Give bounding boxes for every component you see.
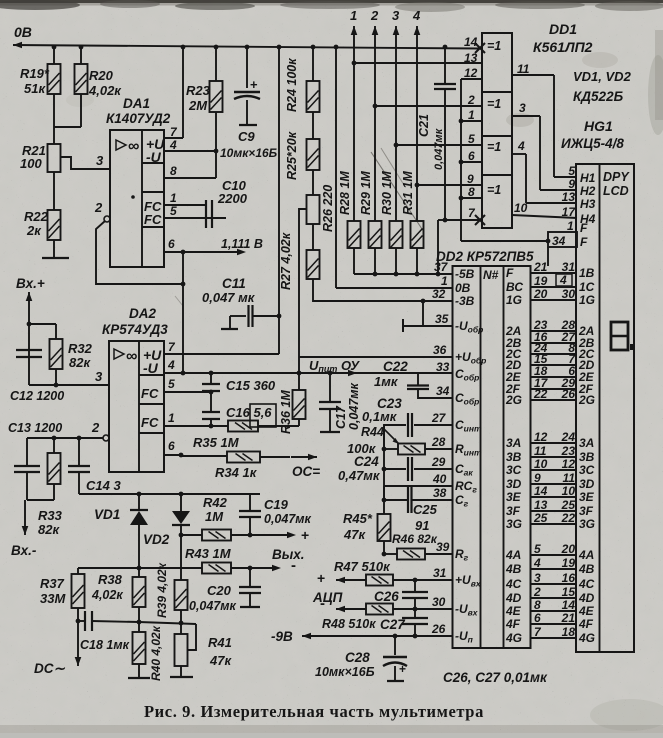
svg-text:+: + — [399, 662, 406, 676]
resistor R38 — [138, 568, 140, 577]
resistor R41 — [180, 623, 182, 634]
svg-text:С19: С19 — [264, 497, 289, 512]
wire R19-R20 join — [53, 94, 55, 127]
pin 5 DD1 — [396, 144, 482, 146]
svg-text:DD2 КР572ПВ5: DD2 КР572ПВ5 — [436, 249, 534, 264]
svg-text:2к: 2к — [26, 223, 42, 238]
svg-text:-U: -U — [146, 149, 162, 165]
capacitor C13 — [14, 465, 40, 467]
svg-text:R29 1М: R29 1М — [359, 171, 373, 215]
svg-text:31: 31 — [562, 260, 576, 274]
svg-text:11: 11 — [534, 444, 547, 458]
svg-text:1: 1 — [350, 8, 357, 23]
svg-text:К561ЛП2: К561ЛП2 — [533, 39, 593, 55]
wire segment F-1В — [531, 272, 577, 274]
svg-text:0,047мк: 0,047мк — [189, 599, 237, 613]
resistor R21 — [48, 144, 61, 172]
wire segment 3D-3D — [531, 483, 577, 485]
wire DD1 aux rail — [460, 79, 462, 241]
wire segment 3В-3В — [531, 456, 577, 458]
svg-text:С24: С24 — [354, 454, 379, 469]
svg-text:26: 26 — [561, 387, 576, 401]
svg-text:11: 11 — [517, 62, 530, 76]
svg-text:14: 14 — [562, 598, 576, 612]
svg-text:10мк×16Б: 10мк×16Б — [315, 665, 375, 679]
pin 5 DA2 — [164, 391, 211, 393]
wire segment 2F-2F — [531, 388, 577, 390]
svg-text:18: 18 — [562, 625, 576, 639]
node bus-R24 — [311, 45, 316, 50]
svg-text:21: 21 — [533, 260, 548, 274]
wire segment 3F-3F — [531, 510, 577, 512]
node pin2-R33 — [52, 436, 57, 441]
svg-text:R30 1М: R30 1М — [380, 171, 394, 215]
svg-text:1М: 1М — [205, 509, 224, 524]
svg-text:32: 32 — [432, 287, 446, 301]
svg-text:-3В: -3В — [455, 294, 475, 308]
svg-text:10мк×16Б: 10мк×16Б — [220, 146, 278, 160]
resistor R35 — [228, 421, 258, 432]
wire lower junction — [139, 622, 196, 624]
wire segment 2Е-2Е — [531, 376, 577, 378]
svg-text:1: 1 — [567, 219, 574, 233]
svg-text:25: 25 — [533, 511, 548, 525]
svg-text:С22: С22 — [383, 359, 408, 374]
wire -5V rail — [353, 248, 355, 274]
svg-text:9: 9 — [568, 177, 575, 191]
svg-text:36: 36 — [433, 343, 447, 357]
svg-text:R27 4,02к: R27 4,02к — [279, 232, 293, 290]
wire segment 4А-4А — [531, 554, 577, 556]
node line2-pin2 — [373, 104, 378, 109]
resistor chain R26 — [312, 170, 314, 195]
svg-text:4,02к: 4,02к — [88, 83, 122, 98]
pin 4 DA2 — [164, 372, 452, 374]
svg-text:21: 21 — [561, 611, 576, 625]
svg-text:14: 14 — [534, 484, 548, 498]
svg-text:3: 3 — [534, 571, 541, 585]
resistor R32 — [29, 323, 56, 325]
trimmer R44 — [425, 448, 452, 450]
wire segment 4Е-4Е — [531, 610, 577, 612]
svg-text:1В: 1В — [579, 266, 595, 280]
resistor R20 — [80, 47, 82, 64]
svg-text:FC: FC — [141, 415, 159, 430]
svg-text:R20: R20 — [89, 68, 114, 83]
capacitor C25 — [407, 487, 409, 513]
node bus-R19 — [52, 45, 57, 50]
svg-text:20: 20 — [533, 287, 548, 301]
op-amp DA2 — [109, 341, 164, 472]
svg-text:DPY: DPY — [603, 170, 630, 184]
resistor R19 — [53, 47, 55, 64]
resistor R29 — [369, 221, 382, 248]
capacitor C14 — [78, 438, 80, 466]
svg-text:26: 26 — [431, 622, 446, 636]
svg-text:0,1мк: 0,1мк — [362, 409, 398, 424]
input arrow Vx+ — [28, 291, 30, 293]
svg-text:С13 1200: С13 1200 — [8, 421, 62, 435]
svg-text:40: 40 — [432, 472, 447, 486]
svg-text:1: 1 — [168, 411, 175, 425]
wire segment 3Е-3Е — [531, 496, 577, 498]
node bus-DA1pin7 — [181, 45, 186, 50]
svg-text:30: 30 — [562, 287, 576, 301]
node Vx-R32 — [27, 322, 32, 327]
svg-text:3: 3 — [95, 369, 103, 384]
svg-text:37: 37 — [434, 260, 449, 274]
resistor chain R24 — [312, 47, 314, 81]
svg-text:4F: 4F — [505, 617, 521, 631]
svg-text:∞: ∞ — [128, 138, 139, 155]
wire R21-R22 — [53, 172, 55, 210]
svg-text:11: 11 — [563, 471, 576, 485]
svg-text:34: 34 — [552, 234, 566, 248]
pin 10 DD1 — [512, 215, 577, 218]
pin 9 DD1 — [417, 184, 482, 186]
svg-text:2G: 2G — [578, 393, 595, 407]
svg-text:С25: С25 — [413, 502, 438, 517]
svg-text:2: 2 — [533, 585, 541, 599]
pin 14 DD1 — [475, 43, 485, 53]
svg-text:82к: 82к — [69, 355, 91, 370]
pin 4 DA1 — [164, 150, 216, 152]
node bus-R23 — [214, 45, 219, 50]
svg-text:Вых.: Вых. — [272, 547, 305, 562]
svg-text:4G: 4G — [578, 631, 595, 645]
svg-text:39: 39 — [436, 540, 450, 554]
capacitor C19 — [249, 494, 251, 511]
svg-text:1: 1 — [468, 108, 475, 122]
wire F backplane — [546, 239, 551, 244]
svg-text:DD1: DD1 — [549, 21, 577, 37]
svg-text:3А: 3А — [579, 436, 594, 450]
svg-text:10: 10 — [562, 484, 576, 498]
resistor R37 — [77, 568, 79, 574]
pin 8 DD1 — [459, 196, 464, 201]
svg-text:R38: R38 — [98, 572, 123, 587]
svg-text:19: 19 — [534, 274, 548, 288]
svg-text:22: 22 — [533, 387, 548, 401]
svg-text:3G: 3G — [506, 517, 522, 531]
svg-text:Вх.-: Вх.- — [11, 543, 37, 558]
svg-text:С28: С28 — [345, 650, 370, 665]
svg-text:Н3: Н3 — [580, 197, 596, 211]
terminal DC~ — [77, 608, 79, 657]
svg-text:R48 510к: R48 510к — [322, 617, 376, 631]
svg-text:3F: 3F — [506, 504, 521, 518]
svg-text:+: + — [250, 77, 258, 92]
pin 6 DA1 with 1.111V — [164, 251, 242, 253]
svg-text:FC: FC — [141, 386, 159, 401]
svg-text:R23: R23 — [186, 83, 211, 98]
node line4-pin9 — [415, 183, 420, 188]
pin 13 DD1 — [354, 62, 482, 64]
wire segment 2D-2D — [531, 364, 577, 366]
svg-text:2G: 2G — [505, 393, 522, 407]
svg-text:F: F — [580, 221, 588, 235]
svg-text:3: 3 — [392, 8, 400, 23]
pin 6 DA2 — [164, 454, 181, 456]
svg-text:1,111 В: 1,111 В — [221, 237, 263, 251]
svg-text:0В: 0В — [455, 281, 471, 295]
svg-text:R19*: R19* — [20, 66, 50, 81]
svg-text:С11: С11 — [222, 276, 246, 291]
svg-text:4D: 4D — [578, 591, 595, 605]
wire pin40 — [384, 485, 452, 487]
svg-text:4В: 4В — [578, 562, 595, 576]
svg-text:1мк: 1мк — [374, 374, 399, 389]
svg-text:R44: R44 — [361, 425, 384, 439]
svg-text:2М: 2М — [188, 98, 208, 113]
svg-text:23: 23 — [561, 444, 576, 458]
terminal below R22 — [53, 240, 55, 258]
svg-text:4G: 4G — [505, 631, 522, 645]
svg-text:С17: С17 — [334, 405, 348, 429]
svg-text:4В: 4В — [505, 562, 522, 576]
pin 1 DD1 — [459, 119, 464, 124]
svg-text:-U: -U — [143, 360, 159, 376]
wire R21 tap to DA1 pin3 — [61, 157, 110, 169]
terminal Vx- — [27, 499, 54, 501]
wire segment 4F-4F — [531, 623, 577, 625]
svg-text:+: + — [301, 527, 309, 543]
svg-text:6: 6 — [168, 237, 175, 251]
svg-text:F: F — [506, 266, 514, 280]
wire pin38 — [384, 499, 407, 501]
capacitor C9 — [246, 47, 248, 88]
scan edge artifacts top — [0, 0, 663, 3]
svg-text:1С: 1С — [579, 280, 595, 294]
wire segment 3А-3А — [531, 442, 577, 444]
svg-text:4: 4 — [169, 138, 177, 152]
pin 3 DD1 — [512, 115, 540, 117]
svg-text:R47 510к: R47 510к — [334, 559, 391, 574]
resistor R48 ADC- — [335, 608, 337, 610]
svg-text:-: - — [320, 595, 325, 612]
svg-text:2: 2 — [370, 8, 379, 23]
svg-text:Н2: Н2 — [580, 184, 596, 198]
svg-text:3А: 3А — [506, 436, 521, 450]
capacitor C26 — [413, 578, 418, 583]
node bus-R20 — [79, 45, 84, 50]
node R37-C18 — [76, 619, 81, 624]
svg-text:4С: 4С — [578, 577, 595, 591]
svg-text:R40 4,02к: R40 4,02к — [149, 625, 163, 681]
capacitor C11 — [278, 47, 280, 354]
wire segment 3С-3С — [531, 469, 577, 471]
svg-text:4: 4 — [517, 139, 525, 153]
pin 3 DA2 wire — [29, 384, 109, 386]
svg-text:С26: С26 — [374, 589, 399, 604]
svg-text:АЦП: АЦП — [312, 590, 343, 605]
wire segment 4В-4В — [531, 568, 577, 570]
diode VD2 — [180, 494, 182, 511]
svg-text:16: 16 — [562, 571, 576, 585]
svg-text:28: 28 — [431, 435, 446, 449]
wire segment 4С-4С — [531, 583, 577, 585]
capacitor C27 — [414, 609, 416, 618]
svg-text:R41: R41 — [208, 635, 232, 650]
svg-text:4А: 4А — [505, 548, 521, 562]
svg-text:LCD: LCD — [603, 184, 629, 198]
svg-text:14: 14 — [464, 35, 478, 49]
svg-text:3В: 3В — [579, 450, 595, 464]
svg-text:4Е: 4Е — [505, 604, 522, 618]
svg-text:4Е: 4Е — [578, 604, 595, 618]
svg-text:=1: =1 — [487, 39, 501, 53]
capacitor C24 — [414, 468, 452, 470]
svg-text:38: 38 — [433, 486, 447, 500]
svg-text:3Е: 3Е — [506, 490, 522, 504]
pin 2 DD1 — [375, 105, 482, 107]
svg-text:F: F — [580, 235, 588, 249]
resistor R22 — [48, 210, 61, 240]
svg-text:8: 8 — [468, 185, 475, 199]
svg-text:31: 31 — [433, 566, 447, 580]
tap R26 to Upit — [299, 209, 307, 373]
scan artifacts: scratches and specks — [371, 152, 424, 232]
svg-text:3: 3 — [96, 153, 104, 168]
svg-text:5: 5 — [568, 164, 575, 178]
op-amp DA1 — [110, 130, 164, 267]
svg-text:ВС: ВС — [506, 280, 523, 294]
resistor R42 output+ — [179, 533, 184, 538]
svg-text:13: 13 — [562, 190, 576, 204]
svg-text:8: 8 — [534, 598, 541, 612]
resistor R45 — [383, 500, 385, 514]
svg-text:R36 1М: R36 1М — [279, 390, 293, 434]
svg-text:3В: 3В — [506, 450, 522, 464]
svg-text:0,047мк: 0,047мк — [264, 512, 312, 526]
wire -9V — [301, 635, 303, 637]
svg-text:VD2: VD2 — [143, 532, 170, 547]
svg-text:R26 220: R26 220 — [321, 185, 335, 232]
resistor R30 — [390, 221, 403, 248]
svg-text:DA2: DA2 — [129, 306, 156, 321]
wire R23-pin4-pin8 — [215, 112, 217, 178]
wire 0V to DD2 pin1 — [335, 47, 337, 288]
svg-text:82к: 82к — [38, 522, 60, 537]
svg-text:=1: =1 — [487, 140, 501, 154]
svg-text:27: 27 — [431, 411, 447, 425]
svg-text:9: 9 — [534, 471, 541, 485]
svg-text:Н1: Н1 — [580, 171, 596, 185]
svg-text:3D: 3D — [506, 477, 522, 491]
svg-text:=1: =1 — [487, 183, 501, 197]
diode VD1 — [138, 494, 140, 510]
svg-text:2: 2 — [467, 93, 475, 107]
svg-text:3С: 3С — [506, 463, 522, 477]
svg-text:3Е: 3Е — [579, 490, 595, 504]
svg-text:R28 1М: R28 1М — [338, 171, 352, 215]
svg-text:29: 29 — [431, 455, 446, 469]
svg-text:ИЖЦ5-4/8: ИЖЦ5-4/8 — [561, 136, 624, 151]
svg-text:47к: 47к — [343, 527, 366, 542]
svg-text:ОС=: ОС= — [292, 464, 320, 479]
wire R27 to -3V — [313, 279, 453, 301]
capacitor C16 — [210, 392, 212, 412]
svg-text:10: 10 — [534, 457, 548, 471]
svg-text:3F: 3F — [579, 504, 594, 518]
svg-text:4: 4 — [533, 556, 541, 570]
pin 7 DA2 — [164, 353, 279, 355]
svg-text:R43 1М: R43 1М — [185, 546, 232, 561]
wire segment ВС-1С — [531, 286, 577, 288]
wire segment 1G-1G — [531, 299, 577, 301]
svg-text:R32: R32 — [68, 341, 93, 356]
svg-text:R45*: R45* — [343, 511, 373, 526]
svg-text:1: 1 — [441, 274, 448, 288]
svg-text:R25*20к: R25*20к — [285, 131, 299, 180]
svg-text:-: - — [291, 557, 296, 574]
svg-text:22: 22 — [561, 511, 576, 525]
svg-text:КД522Б: КД522Б — [573, 89, 624, 104]
capacitor C10 — [205, 200, 207, 228]
svg-text:R42: R42 — [203, 495, 228, 510]
wire segment 4G-4G — [531, 637, 577, 639]
svg-text:С26, С27 0,01мк: С26, С27 0,01мк — [443, 670, 548, 685]
svg-text:100: 100 — [20, 156, 42, 171]
svg-text:1G: 1G — [579, 293, 595, 307]
svg-text:4,02к: 4,02к — [91, 588, 123, 602]
wire C14 net — [79, 493, 260, 495]
pin 8 DA1 — [164, 177, 216, 179]
wire segment 2G-2G — [531, 399, 577, 401]
svg-text:0,47мк: 0,47мк — [338, 468, 381, 483]
svg-text:0,047мк: 0,047мк — [433, 127, 445, 170]
svg-text:20: 20 — [561, 542, 576, 556]
svg-text:5: 5 — [534, 542, 541, 556]
capacitor C21 — [444, 47, 446, 84]
node bus-0V-drop — [334, 45, 339, 50]
svg-text:19: 19 — [562, 556, 576, 570]
svg-text:2: 2 — [94, 200, 103, 215]
pin 12 DD1 — [461, 78, 482, 80]
svg-text:3D: 3D — [579, 477, 595, 491]
svg-text:12: 12 — [534, 430, 548, 444]
svg-text:N#: N# — [483, 268, 499, 282]
svg-text:R24 100к: R24 100к — [285, 58, 299, 112]
svg-text:5: 5 — [468, 132, 475, 146]
node C18-R38 — [137, 620, 142, 625]
svg-text:30: 30 — [432, 595, 446, 609]
resistor R47 ADC+ — [335, 579, 337, 581]
pin 4 DD1 out — [512, 153, 526, 155]
svg-text:3: 3 — [519, 101, 526, 115]
svg-text:=1: =1 — [487, 97, 501, 111]
svg-text:4D: 4D — [505, 591, 522, 605]
adc DD2 — [453, 266, 531, 648]
pin 7 DA1 — [164, 137, 183, 139]
svg-text:0,047мк: 0,047мк — [347, 382, 361, 430]
pin 11 DD1 — [512, 74, 554, 76]
node R32-pin3 — [54, 383, 59, 388]
node pin2-C14 — [77, 436, 82, 441]
wire R43net to R37 top — [78, 567, 139, 569]
svg-text:8: 8 — [170, 164, 177, 178]
resistor R28 — [348, 221, 361, 248]
svg-text:91: 91 — [415, 518, 429, 533]
svg-text:FC: FC — [144, 212, 162, 227]
svg-text:10: 10 — [514, 201, 528, 215]
svg-text:VD1: VD1 — [94, 507, 120, 522]
svg-text:∞: ∞ — [126, 348, 137, 365]
pin 5 DA1 — [164, 217, 226, 219]
resistor R31 — [411, 221, 424, 248]
pin 7 DD1 — [475, 215, 485, 225]
resistor chain R27 — [312, 224, 314, 250]
